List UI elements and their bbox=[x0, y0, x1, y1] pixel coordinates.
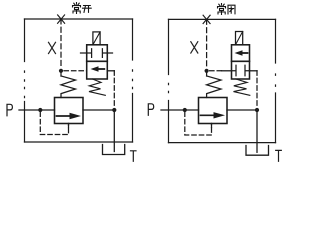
solenoid valve closed position box right bbox=[232, 61, 250, 79]
relief valve flow arrow right bbox=[201, 114, 216, 116]
enclosure top border left bbox=[25, 18, 133, 20]
label chang-kai (normally open) left bbox=[73, 3, 92, 14]
tank symbol left bbox=[103, 145, 125, 155]
port X plug cross left bbox=[58, 15, 65, 23]
node X pilot line (dashed) right bbox=[206, 19, 208, 68]
solenoid valve return spring right bbox=[234, 79, 250, 95]
open position flow arrow left bbox=[97, 68, 104, 70]
wire P inlet right bbox=[161, 109, 199, 111]
enclosure bottom border left bbox=[25, 141, 133, 143]
wire X-line down to spring (dashed) left bbox=[60, 73, 62, 76]
wire to tank left bbox=[113, 110, 115, 152]
solenoid valve closed position box left bbox=[87, 45, 108, 62]
closed position blocked ports (T marks) right bbox=[232, 65, 250, 75]
enclosure top border right bbox=[169, 18, 276, 20]
relief valve flow arrow left bbox=[57, 115, 72, 117]
pilot line to relief valve bottom (dashed) left bbox=[40, 112, 68, 135]
relief valve body right bbox=[199, 98, 228, 124]
junction dot outlet left bbox=[112, 108, 116, 112]
wire relief outlet left bbox=[83, 109, 114, 111]
label X right bbox=[191, 42, 198, 53]
port P label left bbox=[7, 104, 12, 116]
port X plug cross right bbox=[203, 15, 210, 23]
wire P inlet left bbox=[19, 109, 55, 111]
wire valve right stub right bbox=[250, 70, 258, 72]
wire pilot branch to valve (dashed then solid) right bbox=[210, 70, 222, 72]
junction dot X-line left bbox=[59, 69, 63, 73]
solenoid actuator right bbox=[236, 32, 243, 45]
junction dot X-line right bbox=[205, 69, 209, 73]
wire X-line down to spring (dashed) right bbox=[206, 73, 208, 76]
wire valve right stub left bbox=[107, 70, 114, 72]
enclosure left border (chain) right bbox=[168, 19, 170, 142]
closed position port stubs left bbox=[81, 52, 113, 54]
pilot line to relief valve bottom (dashed) right bbox=[185, 112, 212, 135]
solenoid actuator left bbox=[93, 32, 100, 45]
port P label right bbox=[148, 104, 153, 116]
wire relief outlet right bbox=[227, 109, 257, 111]
wire pilot branch to valve (dashed) left bbox=[64, 70, 87, 72]
relief valve spring left bbox=[61, 76, 76, 98]
enclosure right border (chain) right bbox=[275, 19, 277, 142]
label chang-bi (normally closed) right bbox=[218, 4, 236, 15]
wire to tank right bbox=[256, 110, 258, 152]
open position flow arrow right bbox=[241, 52, 248, 54]
node X pilot line (dashed) left bbox=[60, 19, 62, 69]
solenoid valve return spring left bbox=[89, 79, 105, 95]
enclosure right border (chain) left bbox=[132, 19, 134, 142]
junction dot P line left bbox=[38, 108, 42, 112]
solenoid valve open position box right bbox=[232, 45, 250, 62]
port T label right bbox=[276, 150, 282, 161]
junction dot outlet right bbox=[255, 108, 259, 112]
relief valve spring right bbox=[207, 76, 221, 98]
enclosure bottom border right bbox=[169, 142, 276, 144]
solenoid valve open position box left bbox=[87, 61, 108, 79]
wire valve return (dashed vertical) left bbox=[113, 71, 115, 108]
junction dot P line right bbox=[183, 108, 187, 112]
port T label left bbox=[131, 151, 137, 162]
closed position blocked ports (T marks) left bbox=[87, 49, 108, 58]
relief valve body left bbox=[55, 98, 84, 124]
enclosure left border (chain) left bbox=[24, 19, 26, 142]
tank symbol right bbox=[246, 146, 269, 156]
wire valve return (dashed vertical) right bbox=[256, 71, 258, 108]
label X left bbox=[49, 42, 56, 53]
